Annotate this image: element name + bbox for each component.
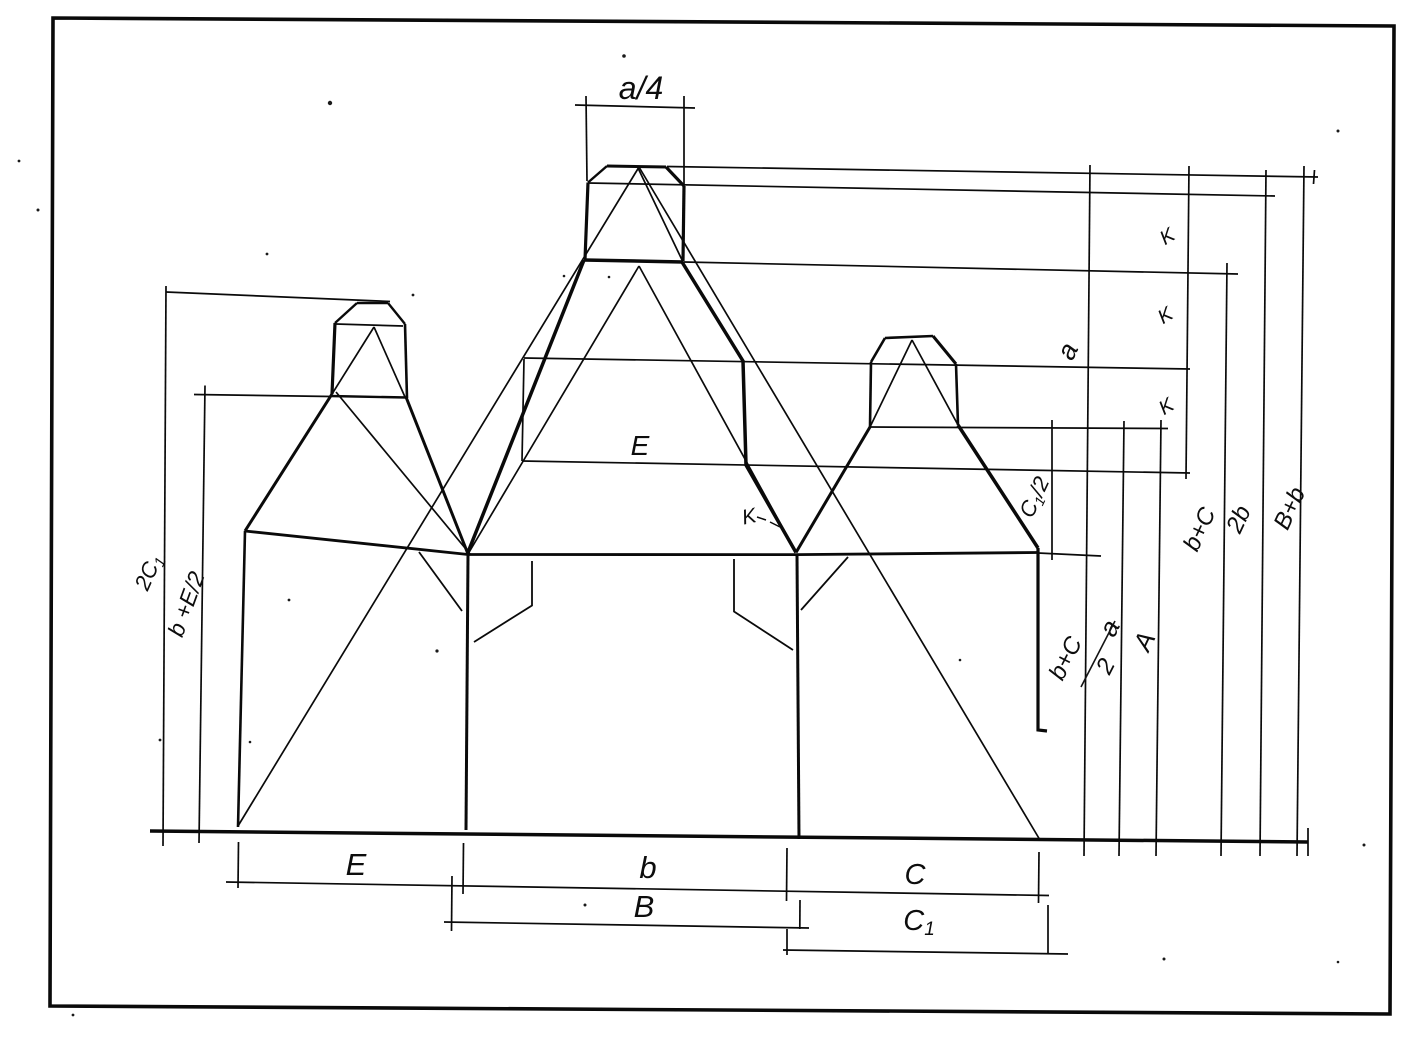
svg-text:a/4: a/4 [619,70,663,106]
svg-text:E: E [631,430,650,461]
svg-text:b: b [639,850,656,885]
svg-text:C: C [905,859,927,891]
svg-text:B: B [634,889,655,924]
svg-text:E: E [346,847,367,882]
